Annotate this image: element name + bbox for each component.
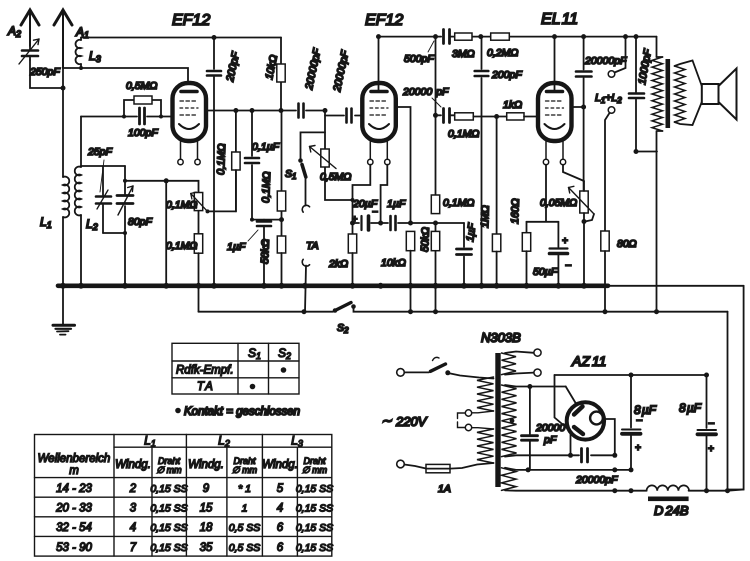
svg-text:18: 18 [200, 522, 213, 534]
switch S2 [199, 303, 728, 336]
svg-text:50kΩ: 50kΩ [419, 227, 432, 252]
capacitor 20000pF to V2 grid [325, 49, 363, 122]
switch S1 [285, 132, 325, 205]
wire y223 to 1uF [411, 222, 465, 224]
node grid combo left [81, 116, 124, 118]
mains terminal lower [397, 460, 405, 468]
switch table S1/S2 [172, 343, 299, 394]
capacitor 0.1uF [245, 108, 280, 220]
capacitor 20000pF coupling V1-V2 [282, 47, 326, 117]
svg-text:1µF: 1µF [387, 198, 406, 210]
svg-text:53 - 90: 53 - 90 [56, 542, 92, 554]
svg-text:200pF: 200pF [491, 69, 522, 81]
svg-text:0,5MΩ: 0,5MΩ [320, 171, 351, 183]
ground bus (thick) [58, 283, 608, 288]
svg-text:0,5 SS: 0,5 SS [229, 542, 261, 554]
tube EL11 V3 [538, 11, 578, 165]
trimmer capacitor 80pF [117, 166, 153, 285]
svg-text:∅ mm: ∅ mm [302, 465, 328, 475]
capacitor 1uF V2 cathode [381, 198, 413, 230]
wire V2 plate to load [396, 107, 411, 223]
svg-text:EF12: EF12 [172, 12, 210, 29]
capacitor 1000pF [629, 34, 654, 151]
capacitor 20000pF psu2 [575, 449, 618, 487]
output transformer core [666, 59, 671, 128]
wire 500pF junction down [435, 37, 437, 116]
ground symbol [53, 286, 75, 335]
svg-text:4: 4 [130, 522, 136, 534]
svg-text:TA: TA [197, 381, 213, 393]
svg-text:∅ mm: ∅ mm [232, 465, 258, 475]
resistor 0.5M grid leak [124, 80, 161, 117]
wire V2 cathode legs [353, 165, 388, 223]
wire 1000pF bottom to primary bottom [636, 151, 657, 153]
transformer heater winding [502, 353, 517, 375]
svg-text:1µF: 1µF [227, 241, 246, 253]
potentiometer 0.5M volume [310, 108, 355, 223]
note Kontakt geschlossen [175, 406, 300, 418]
resistor 50k [259, 236, 286, 285]
transformer rectifier filament winding [502, 468, 517, 491]
coil L2 [75, 166, 98, 285]
wire L3 bottom / grid wire y68 [63, 68, 188, 91]
resistor 0.1M AVC (on 50k line) [260, 111, 286, 237]
svg-text:0,1MΩ: 0,1MΩ [448, 128, 479, 140]
output transformer secondary [675, 66, 686, 122]
terminals L1+L2 link [595, 34, 628, 231]
wire V2 grid cap to top rail [378, 37, 380, 91]
svg-text:5: 5 [277, 483, 284, 495]
resistor 10k plate feed [263, 38, 285, 111]
svg-text:TA: TA [306, 240, 319, 252]
resistor 1k [494, 99, 538, 120]
coil L1 [40, 177, 69, 285]
mains switch [404, 357, 493, 378]
speaker [675, 61, 737, 126]
svg-text:AZ11: AZ11 [571, 353, 606, 369]
capacitor 1uF decoupling [457, 222, 479, 285]
wire A2 down to node [30, 60, 61, 88]
top rail stage2/3 [379, 36, 657, 38]
svg-text:25pF: 25pF [87, 146, 113, 158]
svg-text:0,1MΩ: 0,1MΩ [166, 199, 197, 211]
capacitor 100pF [124, 108, 161, 139]
svg-text:2: 2 [129, 483, 137, 495]
capacitor 1uF stage1 [227, 217, 284, 285]
svg-text:+: + [562, 236, 568, 247]
output transformer primary [652, 37, 663, 312]
svg-text:−: − [565, 260, 572, 272]
resistor 160R [509, 198, 531, 285]
svg-text:15: 15 [200, 503, 213, 515]
svg-text:* 1: * 1 [238, 483, 251, 495]
wire tube bottom to cap line [570, 433, 572, 456]
wire combo to tube grid [161, 116, 173, 118]
svg-text:50kΩ: 50kΩ [259, 239, 272, 264]
coil L3 [76, 38, 101, 69]
svg-text:0,15 SS: 0,15 SS [150, 542, 187, 554]
svg-text:80pF: 80pF [128, 216, 153, 228]
svg-text:+: + [708, 444, 714, 455]
terminals TA [302, 205, 318, 311]
svg-text:D24B: D24B [654, 503, 689, 518]
svg-text:0,1MΩ: 0,1MΩ [215, 143, 228, 175]
capacitor 200pF screen [207, 35, 242, 285]
coil winding table [35, 434, 334, 557]
svg-text:1: 1 [242, 503, 248, 515]
svg-text:0,1MΩ: 0,1MΩ [260, 171, 273, 203]
mains terminal upper [397, 369, 405, 377]
svg-text:20000pF: 20000pF [575, 474, 618, 486]
svg-text:Windg.: Windg. [188, 459, 224, 471]
svg-text:9: 9 [203, 483, 210, 495]
wire V3 cathode [527, 165, 559, 222]
wire plate line V1 [206, 110, 282, 112]
svg-text:20000pF: 20000pF [402, 86, 449, 98]
bus thin extension right [608, 285, 744, 287]
potentiometer 0.1M (V1 grid bias) [166, 181, 210, 234]
resistor 0.1M grid stop [448, 113, 497, 140]
choke D24B [647, 485, 744, 518]
bottom PSU rail [505, 489, 647, 491]
svg-text:80Ω: 80Ω [617, 238, 637, 250]
svg-text:0,15 SS: 0,15 SS [296, 522, 333, 534]
wire HV bottom tap [505, 455, 615, 456]
antenna A2 [7, 10, 39, 46]
wire top line to lower plate [555, 375, 568, 429]
svg-text:100pF: 100pF [128, 127, 158, 139]
wire AVC line to pot [125, 180, 166, 182]
wire L2 top to trimmer box [81, 165, 125, 167]
svg-text:6: 6 [277, 522, 284, 534]
AZ11 top line [555, 374, 707, 376]
rectifier AZ11 [567, 353, 607, 440]
svg-text:1kΩ: 1kΩ [503, 99, 522, 111]
resistor 2k [328, 223, 357, 285]
B+ rail junction dots [302, 309, 660, 314]
wire bus right corner down [728, 286, 744, 490]
resistor 0.1M V2 screen lower [431, 115, 474, 225]
svg-text:Windg.: Windg. [262, 459, 298, 471]
svg-text:10kΩ: 10kΩ [381, 257, 406, 269]
capacitor 20000pF V3 plate [576, 34, 627, 107]
transformer HV winding [502, 385, 517, 457]
svg-text:3MΩ: 3MΩ [452, 48, 475, 60]
svg-text:7: 7 [130, 542, 137, 554]
svg-text:0,5 SS: 0,5 SS [229, 522, 261, 534]
svg-text:N303B: N303B [481, 330, 521, 345]
svg-text:−: − [372, 207, 378, 218]
resistor 0.2M [478, 33, 518, 59]
resistor 0.1M screen divider (vertical, from plate line) [215, 108, 240, 211]
wire node to bus [165, 181, 167, 285]
svg-text:32 - 54: 32 - 54 [56, 522, 92, 534]
wire trimmer box bottom [103, 232, 125, 234]
capacitor 200pF stage3 [475, 37, 523, 285]
svg-text:20 - 33: 20 - 33 [55, 503, 92, 515]
svg-text:Kontakt = geschlossen: Kontakt = geschlossen [184, 406, 300, 418]
svg-text:2kΩ: 2kΩ [328, 258, 348, 270]
heater terminals [505, 349, 541, 376]
svg-text:0,15 SS: 0,15 SS [150, 522, 187, 534]
wire filament output [603, 419, 615, 455]
svg-text:Windg.: Windg. [115, 459, 151, 471]
wire V3 top cap to rail [554, 37, 556, 91]
trimmer capacitor 25pF [87, 146, 113, 233]
electrolytic 50uF [533, 222, 572, 285]
voltage selector terminals [458, 410, 494, 431]
resistor 0.1M lower [166, 234, 203, 312]
resistor 50k V2 screen lower [419, 223, 440, 312]
transformer N303B primary winding lower [477, 429, 494, 463]
variable capacitor 250pF [19, 39, 60, 78]
svg-text:1MΩ: 1MΩ [479, 205, 492, 228]
svg-text:m: m [69, 465, 79, 477]
svg-text:250pF: 250pF [29, 66, 60, 78]
svg-text:0,05MΩ: 0,05MΩ [540, 197, 577, 209]
svg-text:0,5MΩ: 0,5MΩ [126, 80, 157, 92]
electrolytic 8uF second [679, 373, 716, 491]
svg-text:pF: pF [543, 434, 557, 446]
wire wiper to screen resistor [208, 170, 236, 211]
svg-text:500pF: 500pF [404, 53, 434, 65]
resistor 1M grid leak V3 [479, 117, 501, 286]
wire A1 stem down to L1 [62, 68, 64, 177]
capacitor 500pF [404, 30, 452, 66]
svg-text:3: 3 [130, 503, 137, 515]
svg-text:∼: ∼ [381, 413, 392, 428]
capacitor 20000pF V3 grid [402, 86, 455, 123]
svg-text:+: + [635, 443, 641, 454]
svg-text:0,15 SS: 0,15 SS [296, 542, 333, 554]
potentiometer 0.05M tone [540, 165, 594, 285]
svg-text:35: 35 [200, 542, 213, 554]
transformer N303B core [495, 353, 500, 487]
svg-text:4: 4 [277, 503, 283, 515]
wire plate line down to pot [583, 107, 585, 191]
bus junction dots [60, 283, 587, 289]
capacitor 20000pF psu1 [522, 387, 566, 470]
svg-text:8µF: 8µF [679, 401, 702, 415]
svg-text:EF12: EF12 [365, 12, 403, 29]
wire HV top to plate [566, 387, 577, 405]
wire L3 top rail to grid cap chain [81, 37, 281, 39]
svg-text:0,1µF: 0,1µF [252, 141, 280, 153]
electrolytic 8uF first [622, 373, 657, 470]
svg-text:Wellenbereich: Wellenbereich [38, 453, 111, 465]
wire rect filament winding top line [505, 468, 631, 470]
svg-text:−: − [636, 415, 643, 427]
svg-text:∅ mm: ∅ mm [156, 465, 182, 475]
svg-text:14 - 23: 14 - 23 [56, 483, 92, 495]
wire B+ rail right edge down [727, 312, 729, 490]
svg-text:0,2MΩ: 0,2MΩ [487, 47, 518, 59]
svg-text:Rdfk-Empf.: Rdfk-Empf. [176, 365, 234, 377]
svg-text:50µF: 50µF [533, 266, 558, 278]
svg-text:0,15 SS: 0,15 SS [150, 503, 187, 515]
wire HV top tap [505, 385, 566, 387]
fuse 1A [404, 463, 493, 495]
tube EF12 V2 [362, 12, 403, 165]
svg-text:1A: 1A [438, 483, 451, 495]
svg-text:0,15 SS: 0,15 SS [296, 483, 333, 495]
svg-text:20000pF: 20000pF [584, 55, 627, 67]
node A1/A2 junction [61, 86, 66, 91]
svg-text:160Ω: 160Ω [509, 198, 522, 224]
resistor 80R field [601, 231, 637, 312]
svg-text:0,15 SS: 0,15 SS [296, 503, 333, 515]
svg-text:0,1MΩ: 0,1MΩ [443, 197, 474, 209]
resistor 10k V2 [381, 231, 415, 311]
transformer N303B primary winding upper [477, 377, 494, 411]
svg-text:0,15 SS: 0,15 SS [150, 483, 187, 495]
resistor 3M [452, 33, 475, 60]
svg-text:6: 6 [277, 542, 284, 554]
antenna A1 [54, 10, 89, 68]
svg-text:EL11: EL11 [541, 11, 578, 28]
svg-text:0,1MΩ: 0,1MΩ [166, 240, 197, 252]
svg-text:−: − [708, 418, 715, 430]
wire V3 plate stub [572, 106, 584, 108]
tube EF12 V1 [172, 12, 210, 165]
svg-text:220V: 220V [395, 414, 428, 429]
electrolytic 20uF [350, 198, 383, 230]
